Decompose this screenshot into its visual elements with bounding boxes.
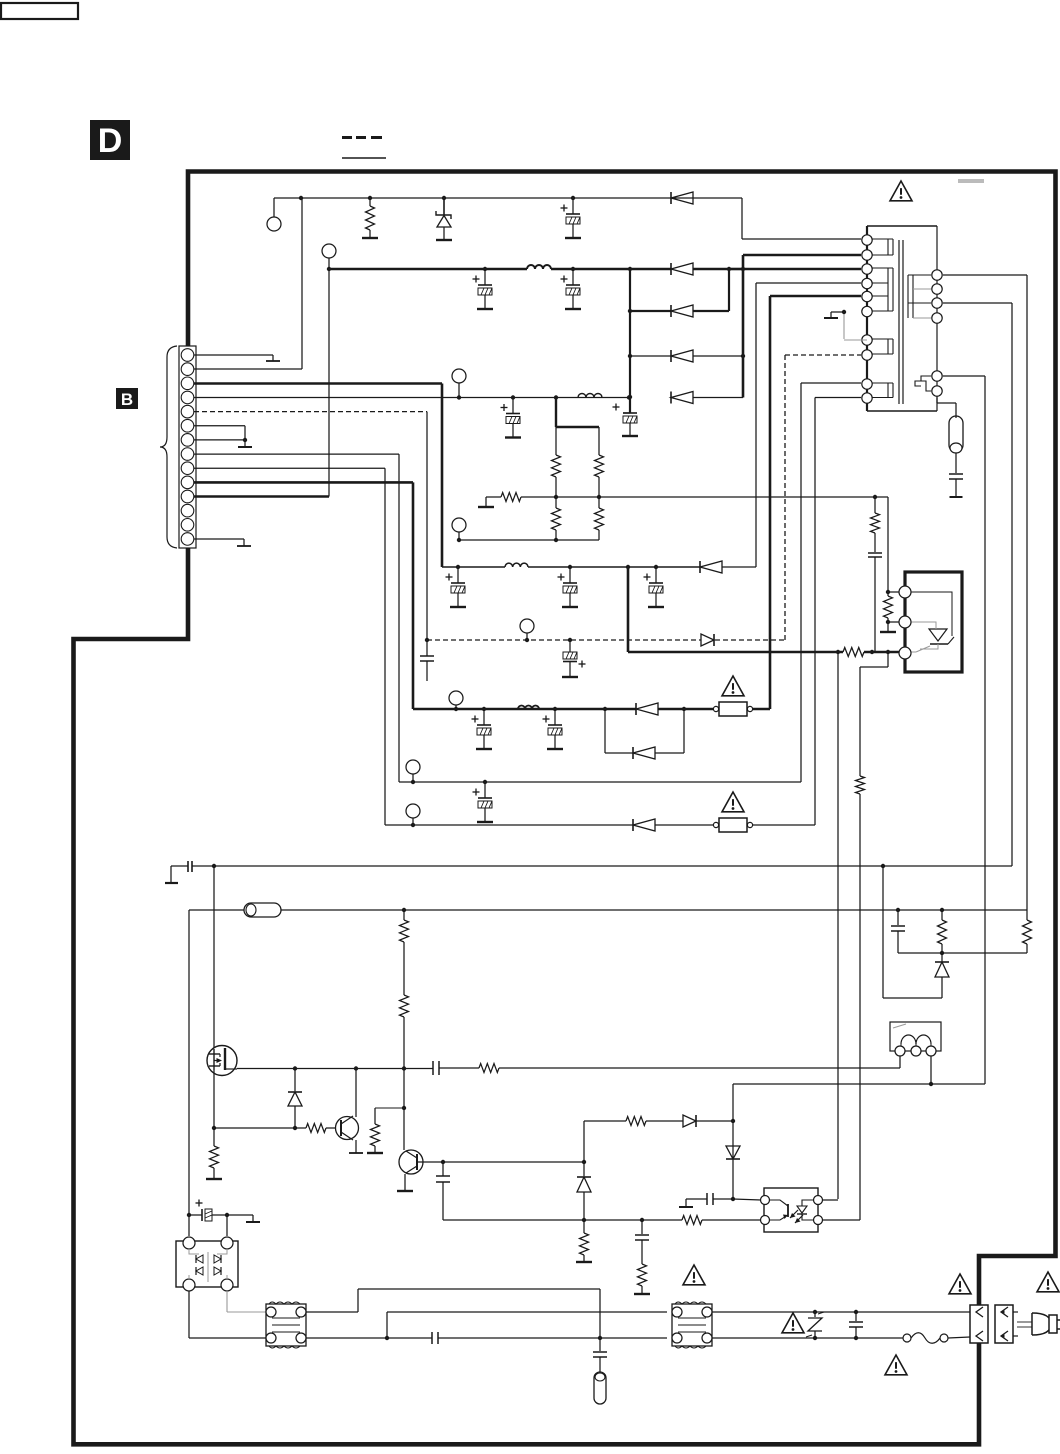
transistor Q3 <box>397 1108 586 1191</box>
coil T2 box <box>890 1022 941 1051</box>
terminal TP5 <box>520 619 534 640</box>
AC inlet connector CN1 <box>970 1305 988 1343</box>
resistor R-P5 <box>306 1124 326 1133</box>
diode D-J1 <box>633 819 655 831</box>
resistor R-P9 <box>576 1220 592 1262</box>
connector pin5 wire (dashed) <box>194 412 427 640</box>
capacitor C-F2 (electrolytic reversed) <box>562 640 586 677</box>
coil T2 wires <box>900 1056 931 1084</box>
AC inlet connector CN2 <box>995 1305 1013 1343</box>
terminal TP8 <box>406 804 420 825</box>
PC1 pins <box>761 1196 823 1225</box>
diode D-B2 branch <box>630 269 729 317</box>
diode D-B3 <box>629 350 745 362</box>
capacitor C-B3 (electrolytic) <box>613 404 639 437</box>
AC line upper <box>712 1310 970 1314</box>
source resistor R-P2 <box>206 1128 222 1179</box>
IC1 pin wires <box>886 590 899 624</box>
resistor R-D2 <box>595 427 604 497</box>
warning triangle above T1 <box>890 181 912 201</box>
zener diode D-A1 <box>436 196 452 240</box>
X-cap C-Q2 <box>849 1312 863 1338</box>
gate rail y1068 <box>237 1066 433 1070</box>
rail-I wire y782 <box>399 383 861 784</box>
wire to bridge right <box>226 1215 228 1236</box>
warning triangle at ZNR1 <box>782 1313 804 1333</box>
terminal TP7 <box>406 760 420 782</box>
rail-B wire y269 (thick) <box>327 265 861 271</box>
svg-text:B: B <box>121 390 133 409</box>
warning triangle below F1 <box>885 1355 907 1375</box>
resistor R-K2 + cap chain <box>868 497 882 652</box>
diode D-N1 <box>883 866 949 998</box>
terminal TP2 <box>322 244 336 269</box>
terminal TP6 <box>449 691 463 709</box>
rail-C junctions <box>457 395 631 399</box>
rail-M y910 <box>189 903 1027 1236</box>
wire to transformer pin1 <box>742 198 861 239</box>
diode D-P7 <box>726 1146 740 1159</box>
PC1 internals <box>765 1200 818 1223</box>
rail-J wire y825 <box>385 398 861 828</box>
rail-L y866 <box>165 861 1012 883</box>
rail-H thick y709 <box>413 296 861 711</box>
rail-E wire y567 <box>442 563 700 569</box>
capacitor C-B2 (electrolytic) <box>561 269 582 309</box>
cap C-P2 <box>436 1162 450 1220</box>
title block box top-left <box>1 3 78 19</box>
connector brace <box>160 346 177 548</box>
capacitor C-A1 (electrolytic) <box>561 196 582 238</box>
connector pin6/7 wires to ground <box>194 426 252 447</box>
warning triangle near inlet <box>949 1274 971 1294</box>
line filter L-Q1 box <box>266 1302 306 1348</box>
PC1 output wires <box>822 1200 860 1220</box>
thick tap wire <box>556 398 599 428</box>
filter L-Q1 pins <box>266 1307 306 1343</box>
capacitor C-I1 (electrolytic) <box>473 782 494 822</box>
resistor R-D5 to ground <box>478 493 521 508</box>
greeked part label <box>958 179 984 183</box>
resistor R-P6 <box>367 1108 404 1153</box>
sense rail y497 <box>521 495 888 499</box>
resistor R-D4 <box>595 495 604 540</box>
bridge DB1 pins <box>183 1237 233 1291</box>
rail-F dashed wire y640 <box>425 355 861 642</box>
fuse F1 <box>903 1333 948 1344</box>
connector pin8 wire <box>194 454 399 782</box>
resistor R-A1 <box>362 196 378 238</box>
diode D-P1 <box>288 1068 302 1130</box>
capacitor C-B1 (electrolytic) <box>473 267 494 309</box>
snubber tie y953 <box>898 951 1027 955</box>
gate cap C-P1 <box>433 1061 439 1075</box>
svg-text:D: D <box>98 122 123 160</box>
sec wire q3 <box>943 303 1012 866</box>
rail y1084 <box>733 1082 985 1086</box>
terminal TP1 <box>267 198 281 231</box>
sec wire q5 <box>943 376 985 1084</box>
diode D-F1 <box>701 634 714 646</box>
gate resistor R-P1 <box>439 1064 900 1073</box>
connector pin9 wire <box>194 468 385 825</box>
diode D-H1 <box>636 703 658 715</box>
bulk cap C-Q1 (electrolytic horizontal) <box>187 1200 260 1223</box>
diode D-B4 on pin4 rail <box>671 392 743 404</box>
drain wire <box>213 866 215 1054</box>
MOSFET Q1 <box>207 1046 237 1076</box>
bridge DB1 internals <box>189 1249 227 1282</box>
cap C-P11 + ground <box>679 1193 733 1207</box>
regulator IC1 pins <box>899 586 911 659</box>
diode D-A2 <box>671 192 693 204</box>
terminal TP4 <box>452 518 466 540</box>
sec wire q1 <box>943 275 1027 910</box>
regulator IC1 box <box>905 572 962 672</box>
AC line lower <box>712 1336 970 1340</box>
diode D-P8 <box>577 1162 591 1220</box>
snubber R-N2 <box>1023 910 1032 953</box>
connector pin3 wire (thick) <box>194 384 442 568</box>
filter L-Q2 pins <box>672 1307 712 1343</box>
transformer T1 body <box>867 226 937 411</box>
transformer T1 primary pins <box>862 235 872 403</box>
rail-G thick y652 <box>628 567 903 654</box>
diode D-B1 <box>671 263 693 275</box>
warning triangle above F-J1 <box>722 792 744 812</box>
capacitor C-H1 (electrolytic) <box>472 709 493 749</box>
diode D-H2 branch <box>605 709 684 759</box>
bottom tie wire y540 <box>457 538 599 542</box>
transistor Q2 <box>326 1069 363 1153</box>
connector pin4 wire <box>194 397 629 399</box>
transformer T1 secondary pins <box>932 270 942 396</box>
connector pin2 wire <box>194 198 302 369</box>
optocoupler PC1 box <box>764 1188 818 1232</box>
inductor L-H1 <box>518 706 539 709</box>
resistor R-D3 <box>552 495 561 540</box>
line filter L-Q2 box <box>672 1302 712 1348</box>
capacitor C-E3 (electrolytic) <box>644 567 665 607</box>
cap+res chain R-P10 <box>634 1220 650 1294</box>
source wire <box>212 1070 216 1130</box>
capacitor C-H2 (electrolytic) <box>543 709 564 749</box>
wire x860 with resistor R-K3 <box>856 652 889 1220</box>
redacted title dashes <box>342 136 386 158</box>
AC plug <box>1013 1312 1060 1336</box>
bridge output wires <box>189 1291 266 1338</box>
connector pin10 wire (thick) <box>194 482 413 709</box>
thick vertical to transformer pin2 <box>743 255 861 398</box>
resistor R-K1 <box>880 497 896 632</box>
filter routing upper <box>306 1289 602 1340</box>
capacitor C-E2 (electrolytic) <box>558 567 579 607</box>
warning triangle mid <box>683 1265 705 1285</box>
varistor ZNR1 <box>806 1312 824 1338</box>
neutral riser <box>387 1312 667 1338</box>
capacitor C-F1 <box>420 640 434 681</box>
fuse F-H1 <box>713 702 752 716</box>
pill capacitor at C-Q3 <box>593 1338 607 1404</box>
warning triangle right of border <box>1037 1272 1059 1292</box>
feedback path y1121 <box>584 1115 735 1162</box>
connector pin14 wire + stub <box>194 539 251 546</box>
resistor R-G1 <box>843 648 864 657</box>
fuse F-J1 <box>713 818 752 832</box>
bridge rectifier DB1 box <box>176 1241 238 1287</box>
inductor L-C1 <box>578 394 602 398</box>
section label B <box>116 388 138 409</box>
wire y1220 <box>443 1218 682 1222</box>
wire x733 <box>731 1084 761 1201</box>
connector CN-B 14-pin <box>179 346 196 548</box>
terminal TP3 <box>452 369 466 398</box>
wire to transformer pin4 <box>756 283 861 567</box>
connector pin11 wire (thick) <box>194 269 329 497</box>
thermistor TH1 chain <box>937 398 963 498</box>
warning triangle above F-H1 <box>722 676 744 696</box>
capacitor C-C1 (electrolytic) <box>501 398 522 438</box>
resistor R-D1 <box>552 427 561 497</box>
resistor chain R-P3 R-P4 <box>400 910 409 1110</box>
coil T2 pins <box>895 1046 936 1056</box>
PC1 input wires <box>682 1216 761 1225</box>
rail-A wire y198 <box>274 196 742 200</box>
wire x838 <box>837 652 839 1199</box>
filter routing lower <box>306 1332 667 1344</box>
wire y1128 <box>214 1127 306 1129</box>
connector pin1 wire + stub <box>194 355 280 361</box>
snubber C-N1 <box>891 910 905 953</box>
thick branch x630 <box>628 267 632 413</box>
diode D-E1 <box>700 561 756 573</box>
section label D <box>90 120 130 160</box>
snubber R-N1 <box>938 910 947 953</box>
capacitor C-E1 (electrolytic) <box>446 567 467 607</box>
pin7 ground jog <box>824 310 867 340</box>
